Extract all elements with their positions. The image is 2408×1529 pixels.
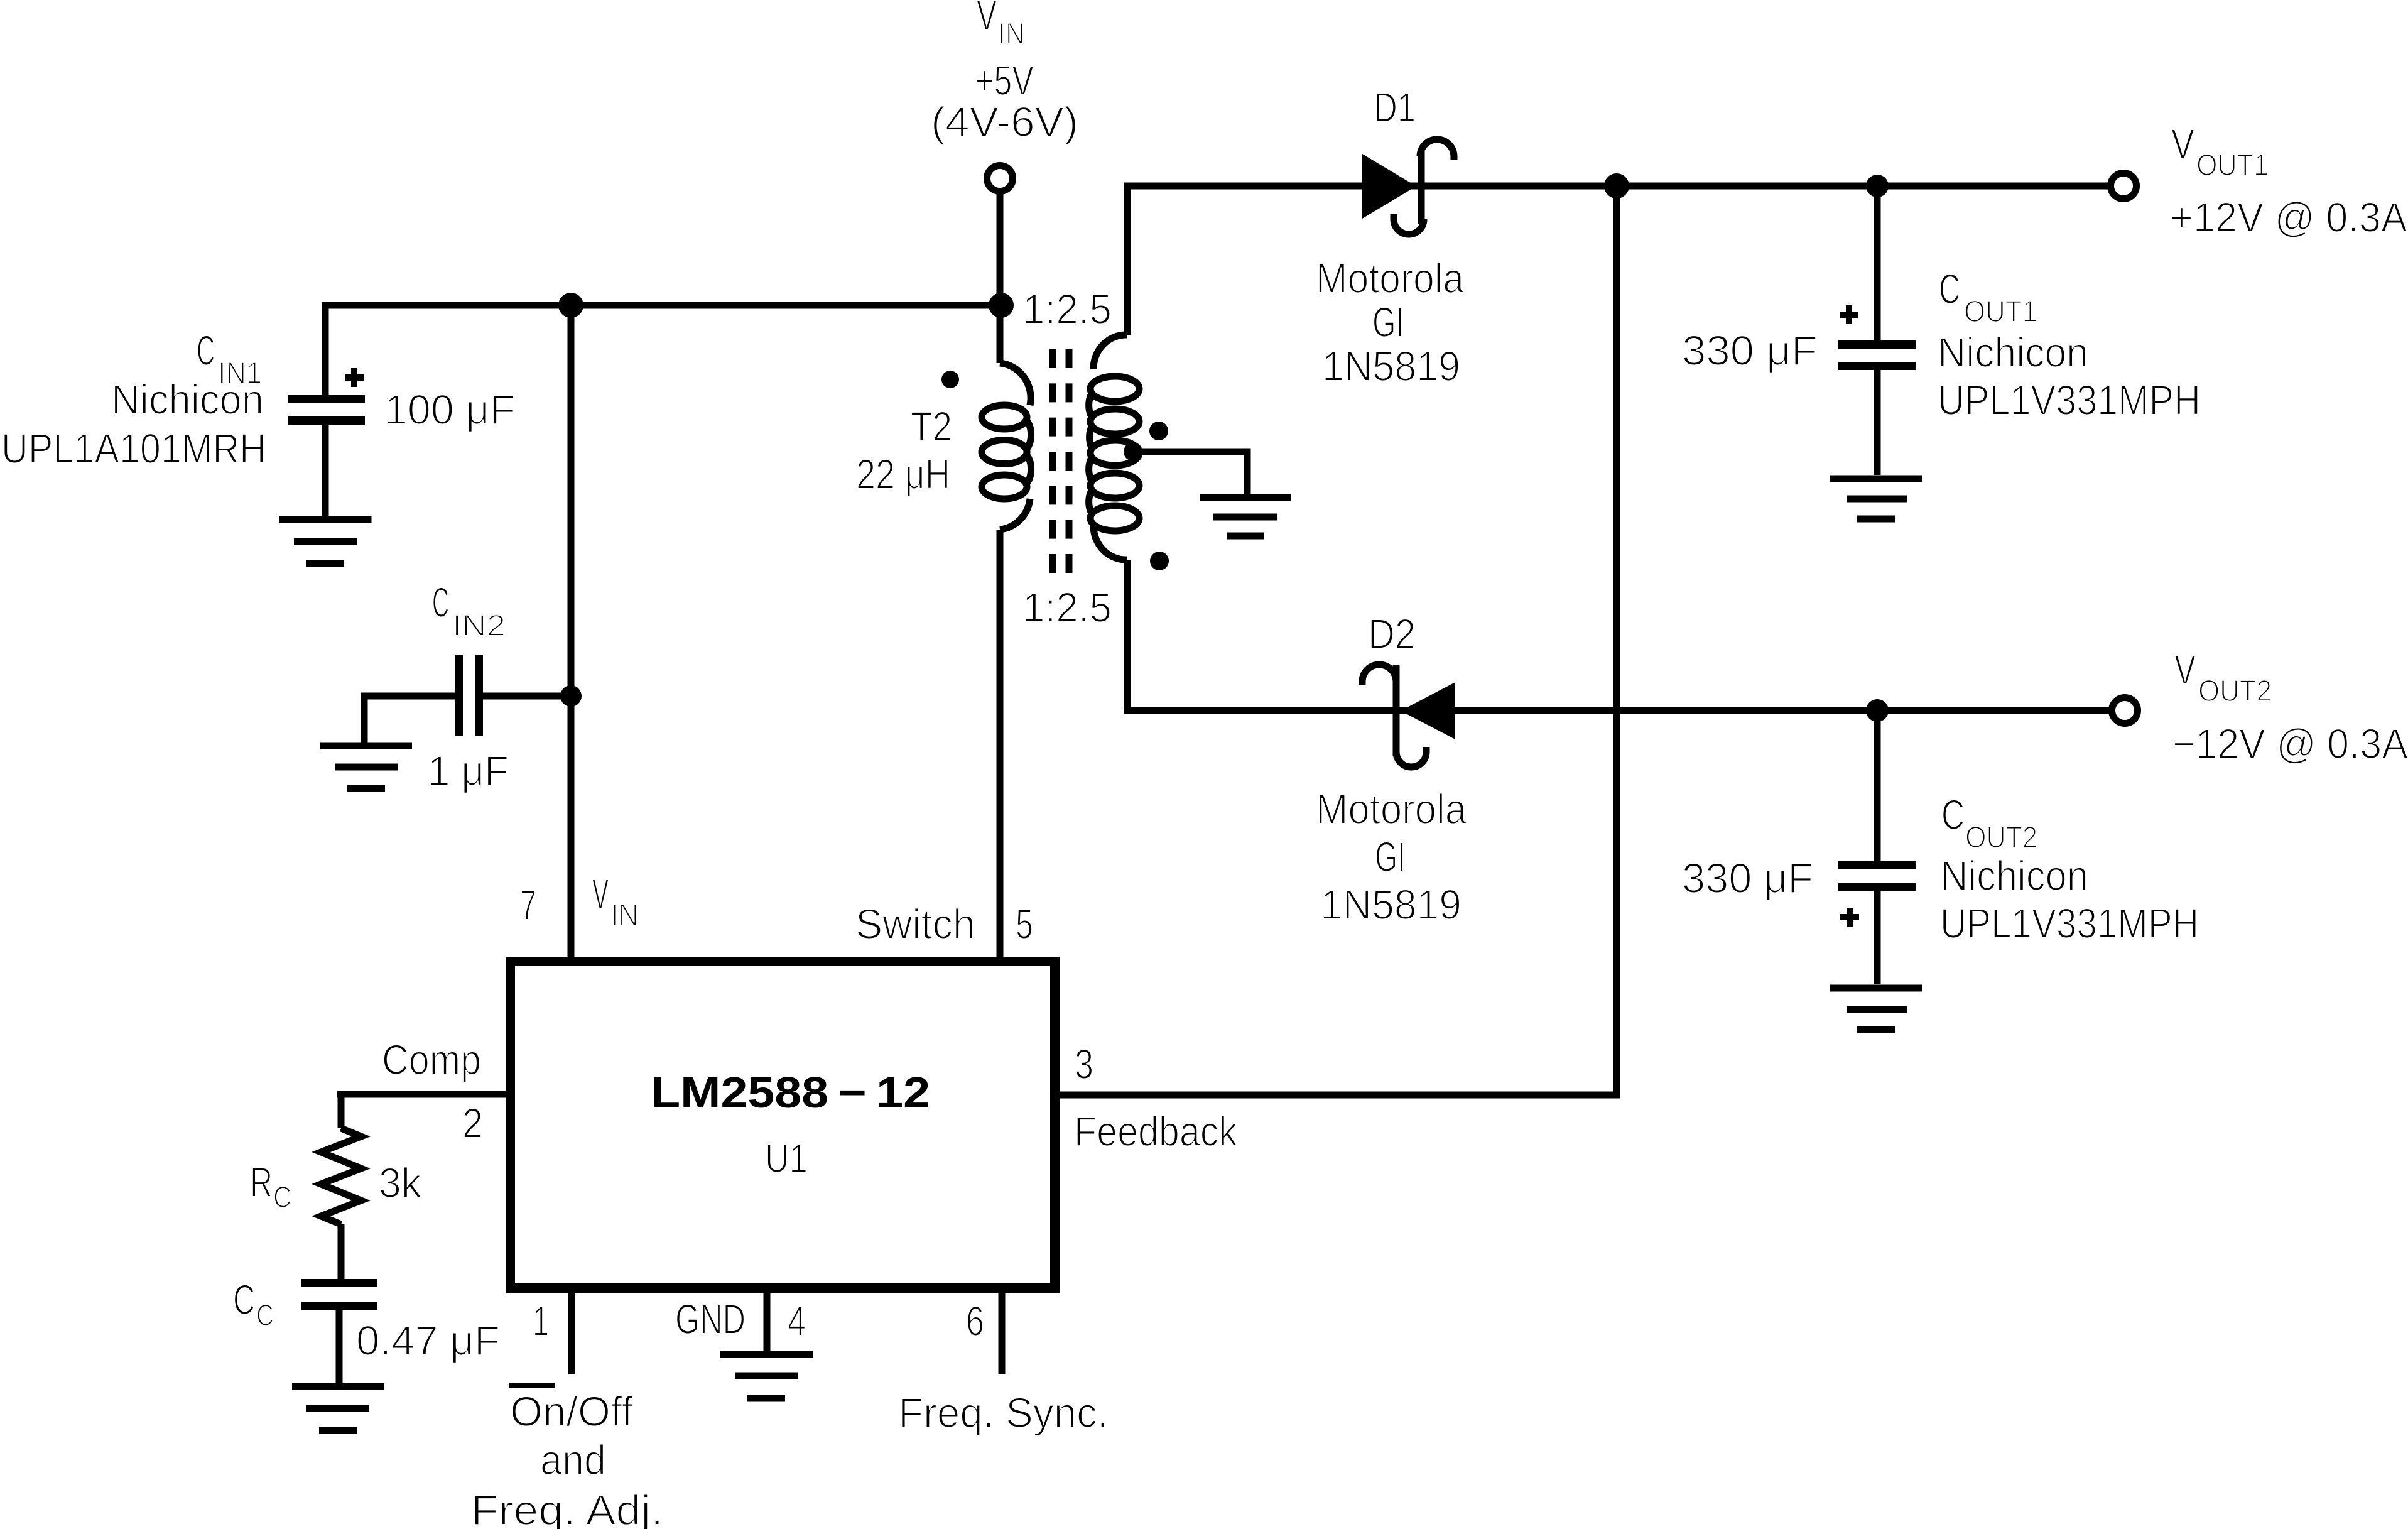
svg-text:C: C bbox=[273, 1181, 291, 1214]
transformer phase dot secondary bottom bbox=[1150, 552, 1169, 570]
svg-text:22 μH: 22 μH bbox=[856, 451, 950, 498]
svg-text:Comp: Comp bbox=[382, 1037, 481, 1084]
node center tap dot bbox=[1124, 442, 1142, 461]
svg-text:+5V: +5V bbox=[975, 57, 1034, 104]
svg-text:100 μF: 100 μF bbox=[384, 386, 515, 433]
svg-text:C: C bbox=[197, 327, 215, 374]
plus sign CIN1 bbox=[345, 368, 364, 387]
node junction bus-CIN1/pin7 bbox=[558, 293, 583, 318]
label On/Off bbox=[471, 1388, 663, 1529]
label pin5 bbox=[855, 901, 1033, 948]
wire VIN terminal lead bbox=[997, 191, 1004, 305]
svg-text:Switch: Switch bbox=[855, 901, 975, 948]
svg-text:IN: IN bbox=[998, 18, 1025, 51]
svg-text:C: C bbox=[432, 579, 449, 626]
wire CIN1 drop bbox=[322, 305, 329, 516]
plus sign COUT1 bbox=[1840, 305, 1858, 324]
wire secondary bottom vertical bbox=[1124, 560, 1131, 710]
label CC bbox=[233, 1276, 500, 1364]
ground COUT2 bbox=[1830, 988, 1922, 1030]
svg-text:GND: GND bbox=[675, 1296, 746, 1343]
svg-text:IN: IN bbox=[610, 899, 639, 932]
wire VOUT2 line bbox=[1124, 707, 2109, 714]
svg-text:7: 7 bbox=[520, 882, 536, 929]
ground CC bbox=[292, 1386, 384, 1430]
label D1 bbox=[1316, 84, 1465, 390]
svg-text:Nichicon: Nichicon bbox=[1938, 329, 2088, 376]
svg-text:V: V bbox=[2171, 121, 2194, 168]
wire T2 primary top bbox=[997, 305, 1004, 363]
svg-text:+12V @ 0.3A: +12V @ 0.3A bbox=[2170, 194, 2407, 241]
wire feedback vertical bbox=[1613, 186, 1620, 1095]
wire RC-CC lead bbox=[338, 1224, 345, 1279]
transformer phase dot secondary top bbox=[1149, 422, 1168, 440]
wire input bus bbox=[322, 302, 1001, 309]
svg-text:5: 5 bbox=[1016, 901, 1033, 948]
svg-text:UPL1A101MRH: UPL1A101MRH bbox=[1, 425, 266, 472]
labels top VIN bbox=[931, 0, 1078, 146]
capacitor CC plates bbox=[301, 1279, 377, 1310]
svg-text:V: V bbox=[977, 0, 997, 39]
label VOUT1 bbox=[2170, 121, 2407, 241]
transformer T2 secondary coil bbox=[1089, 335, 1139, 560]
svg-text:1N5819: 1N5819 bbox=[1320, 881, 1462, 928]
svg-text:1:2.5: 1:2.5 bbox=[1022, 584, 1112, 631]
svg-text:(4V-6V): (4V-6V) bbox=[931, 99, 1078, 146]
label pin3 bbox=[1074, 1041, 1237, 1155]
label On/Off overline bbox=[509, 1383, 555, 1388]
label RC bbox=[250, 1159, 421, 1214]
wire VOUT1 line bbox=[1124, 183, 2108, 190]
wire pin3 feedback horizontal bbox=[1060, 1092, 1620, 1099]
wire pin7 vertical bbox=[568, 305, 575, 957]
label U1 bbox=[651, 1068, 930, 1181]
terminal VOUT1 bbox=[2111, 173, 2137, 199]
svg-text:OUT2: OUT2 bbox=[1965, 821, 2037, 854]
node junction COUT1 bbox=[1866, 175, 1889, 197]
svg-text:IN2: IN2 bbox=[452, 609, 506, 643]
svg-text:1: 1 bbox=[533, 1298, 549, 1345]
label VOUT2 bbox=[2172, 646, 2408, 768]
svg-text:Nichicon: Nichicon bbox=[1940, 852, 2088, 900]
ground T2 center tap bbox=[1200, 498, 1291, 536]
svg-text:and: and bbox=[540, 1437, 606, 1484]
svg-text:D1: D1 bbox=[1374, 84, 1416, 131]
svg-text:Freq. Sync.: Freq. Sync. bbox=[898, 1390, 1109, 1437]
wire pin6 bbox=[999, 1293, 1006, 1374]
svg-text:Motorola: Motorola bbox=[1316, 255, 1465, 302]
label pin2 bbox=[382, 1037, 483, 1147]
svg-text:330 μF: 330 μF bbox=[1682, 327, 1818, 374]
svg-text:U1: U1 bbox=[765, 1136, 808, 1181]
IC U1 LM2588-12 box bbox=[511, 962, 1055, 1288]
ground CIN1 bbox=[279, 520, 372, 564]
svg-text:OUT2: OUT2 bbox=[2198, 675, 2272, 708]
wire pin4 bbox=[764, 1293, 771, 1351]
svg-text:C: C bbox=[1941, 792, 1965, 839]
plus sign COUT2 bbox=[1840, 908, 1859, 927]
svg-text:OUT1: OUT1 bbox=[1964, 295, 2037, 329]
svg-text:Nichicon: Nichicon bbox=[111, 376, 264, 423]
wire RC top lead bbox=[338, 1094, 345, 1128]
label CIN1 bbox=[1, 327, 515, 472]
svg-text:UPL1V331MPH: UPL1V331MPH bbox=[1940, 900, 2199, 947]
node junction COUT2 bbox=[1866, 699, 1889, 722]
svg-text:OUT1: OUT1 bbox=[2196, 149, 2269, 182]
wire COUT1 leads bbox=[1874, 186, 1881, 475]
svg-text:0.47 μF: 0.47 μF bbox=[356, 1317, 500, 1364]
svg-text:1:2.5: 1:2.5 bbox=[1022, 286, 1112, 333]
svg-text:GI: GI bbox=[1375, 834, 1406, 881]
diode D1 bbox=[1362, 139, 1454, 234]
wire T2 primary bottom / pin5 bbox=[997, 530, 1004, 957]
ground CIN2 bbox=[320, 746, 412, 788]
capacitor COUT2 plates bbox=[1838, 861, 1916, 891]
wire COUT2 leads bbox=[1874, 710, 1881, 984]
label CIN2 bbox=[428, 579, 509, 795]
transformer T2 primary coil bbox=[982, 363, 1031, 530]
label COUT1 bbox=[1682, 266, 2201, 424]
svg-text:R: R bbox=[250, 1159, 273, 1206]
wire CIN2 right lead bbox=[483, 693, 571, 700]
terminal VIN bbox=[987, 166, 1013, 192]
capacitor COUT1 plates bbox=[1838, 340, 1916, 370]
transformer phase dot primary bbox=[941, 371, 959, 388]
wire CC to ground bbox=[336, 1310, 343, 1383]
transformer T2 core bbox=[1053, 349, 1069, 573]
wire CIN2 left lead to ground bbox=[364, 696, 455, 743]
capacitor CIN1 plates bbox=[288, 395, 365, 425]
label D2 bbox=[1316, 611, 1467, 928]
svg-text:3k: 3k bbox=[379, 1160, 421, 1207]
svg-text:C: C bbox=[256, 1299, 274, 1332]
svg-text:UPL1V331MPH: UPL1V331MPH bbox=[1938, 377, 2201, 424]
svg-text:C: C bbox=[233, 1276, 255, 1324]
svg-text:D2: D2 bbox=[1368, 611, 1416, 658]
node junction feedback-VOUT1 bbox=[1604, 173, 1629, 199]
svg-text:4: 4 bbox=[788, 1298, 806, 1345]
svg-text:C: C bbox=[1939, 266, 1960, 313]
resistor RC zigzag bbox=[321, 1128, 361, 1224]
terminal VOUT2 bbox=[2112, 698, 2138, 724]
wire pin1 bbox=[568, 1293, 575, 1374]
svg-text:6: 6 bbox=[966, 1298, 984, 1345]
svg-text:V: V bbox=[592, 871, 609, 918]
diode D2 bbox=[1362, 665, 1455, 767]
svg-text:2: 2 bbox=[462, 1100, 483, 1147]
svg-text:1 μF: 1 μF bbox=[428, 748, 509, 795]
label pin7 bbox=[520, 871, 639, 932]
svg-text:Motorola: Motorola bbox=[1316, 786, 1467, 833]
svg-text:1N5819: 1N5819 bbox=[1322, 343, 1460, 390]
ground COUT1 bbox=[1830, 479, 1922, 519]
node junction CIN2-pin7 bbox=[560, 685, 582, 707]
svg-text:LM2588 − 12: LM2588 − 12 bbox=[651, 1068, 930, 1117]
label COUT2 bbox=[1682, 792, 2199, 947]
label pin4 GND bbox=[675, 1296, 806, 1345]
capacitor CIN2 plates bbox=[455, 655, 483, 736]
wire pin2 comp bbox=[337, 1091, 506, 1098]
svg-text:T2: T2 bbox=[911, 403, 952, 450]
svg-text:330 μF: 330 μF bbox=[1682, 855, 1813, 902]
wire center tap bbox=[1133, 452, 1247, 494]
node junction VIN-T2 bbox=[989, 293, 1014, 318]
svg-text:GI: GI bbox=[1372, 299, 1404, 346]
ground pin4 GND bbox=[720, 1354, 813, 1398]
svg-text:Freq. Adj.: Freq. Adj. bbox=[471, 1487, 663, 1529]
svg-text:On/Off: On/Off bbox=[510, 1388, 633, 1435]
svg-text:−12V @ 0.3A: −12V @ 0.3A bbox=[2172, 721, 2408, 768]
svg-text:Feedback: Feedback bbox=[1074, 1108, 1237, 1155]
svg-text:3: 3 bbox=[1075, 1041, 1093, 1088]
svg-text:V: V bbox=[2174, 646, 2196, 694]
wire secondary top vertical bbox=[1124, 186, 1131, 335]
